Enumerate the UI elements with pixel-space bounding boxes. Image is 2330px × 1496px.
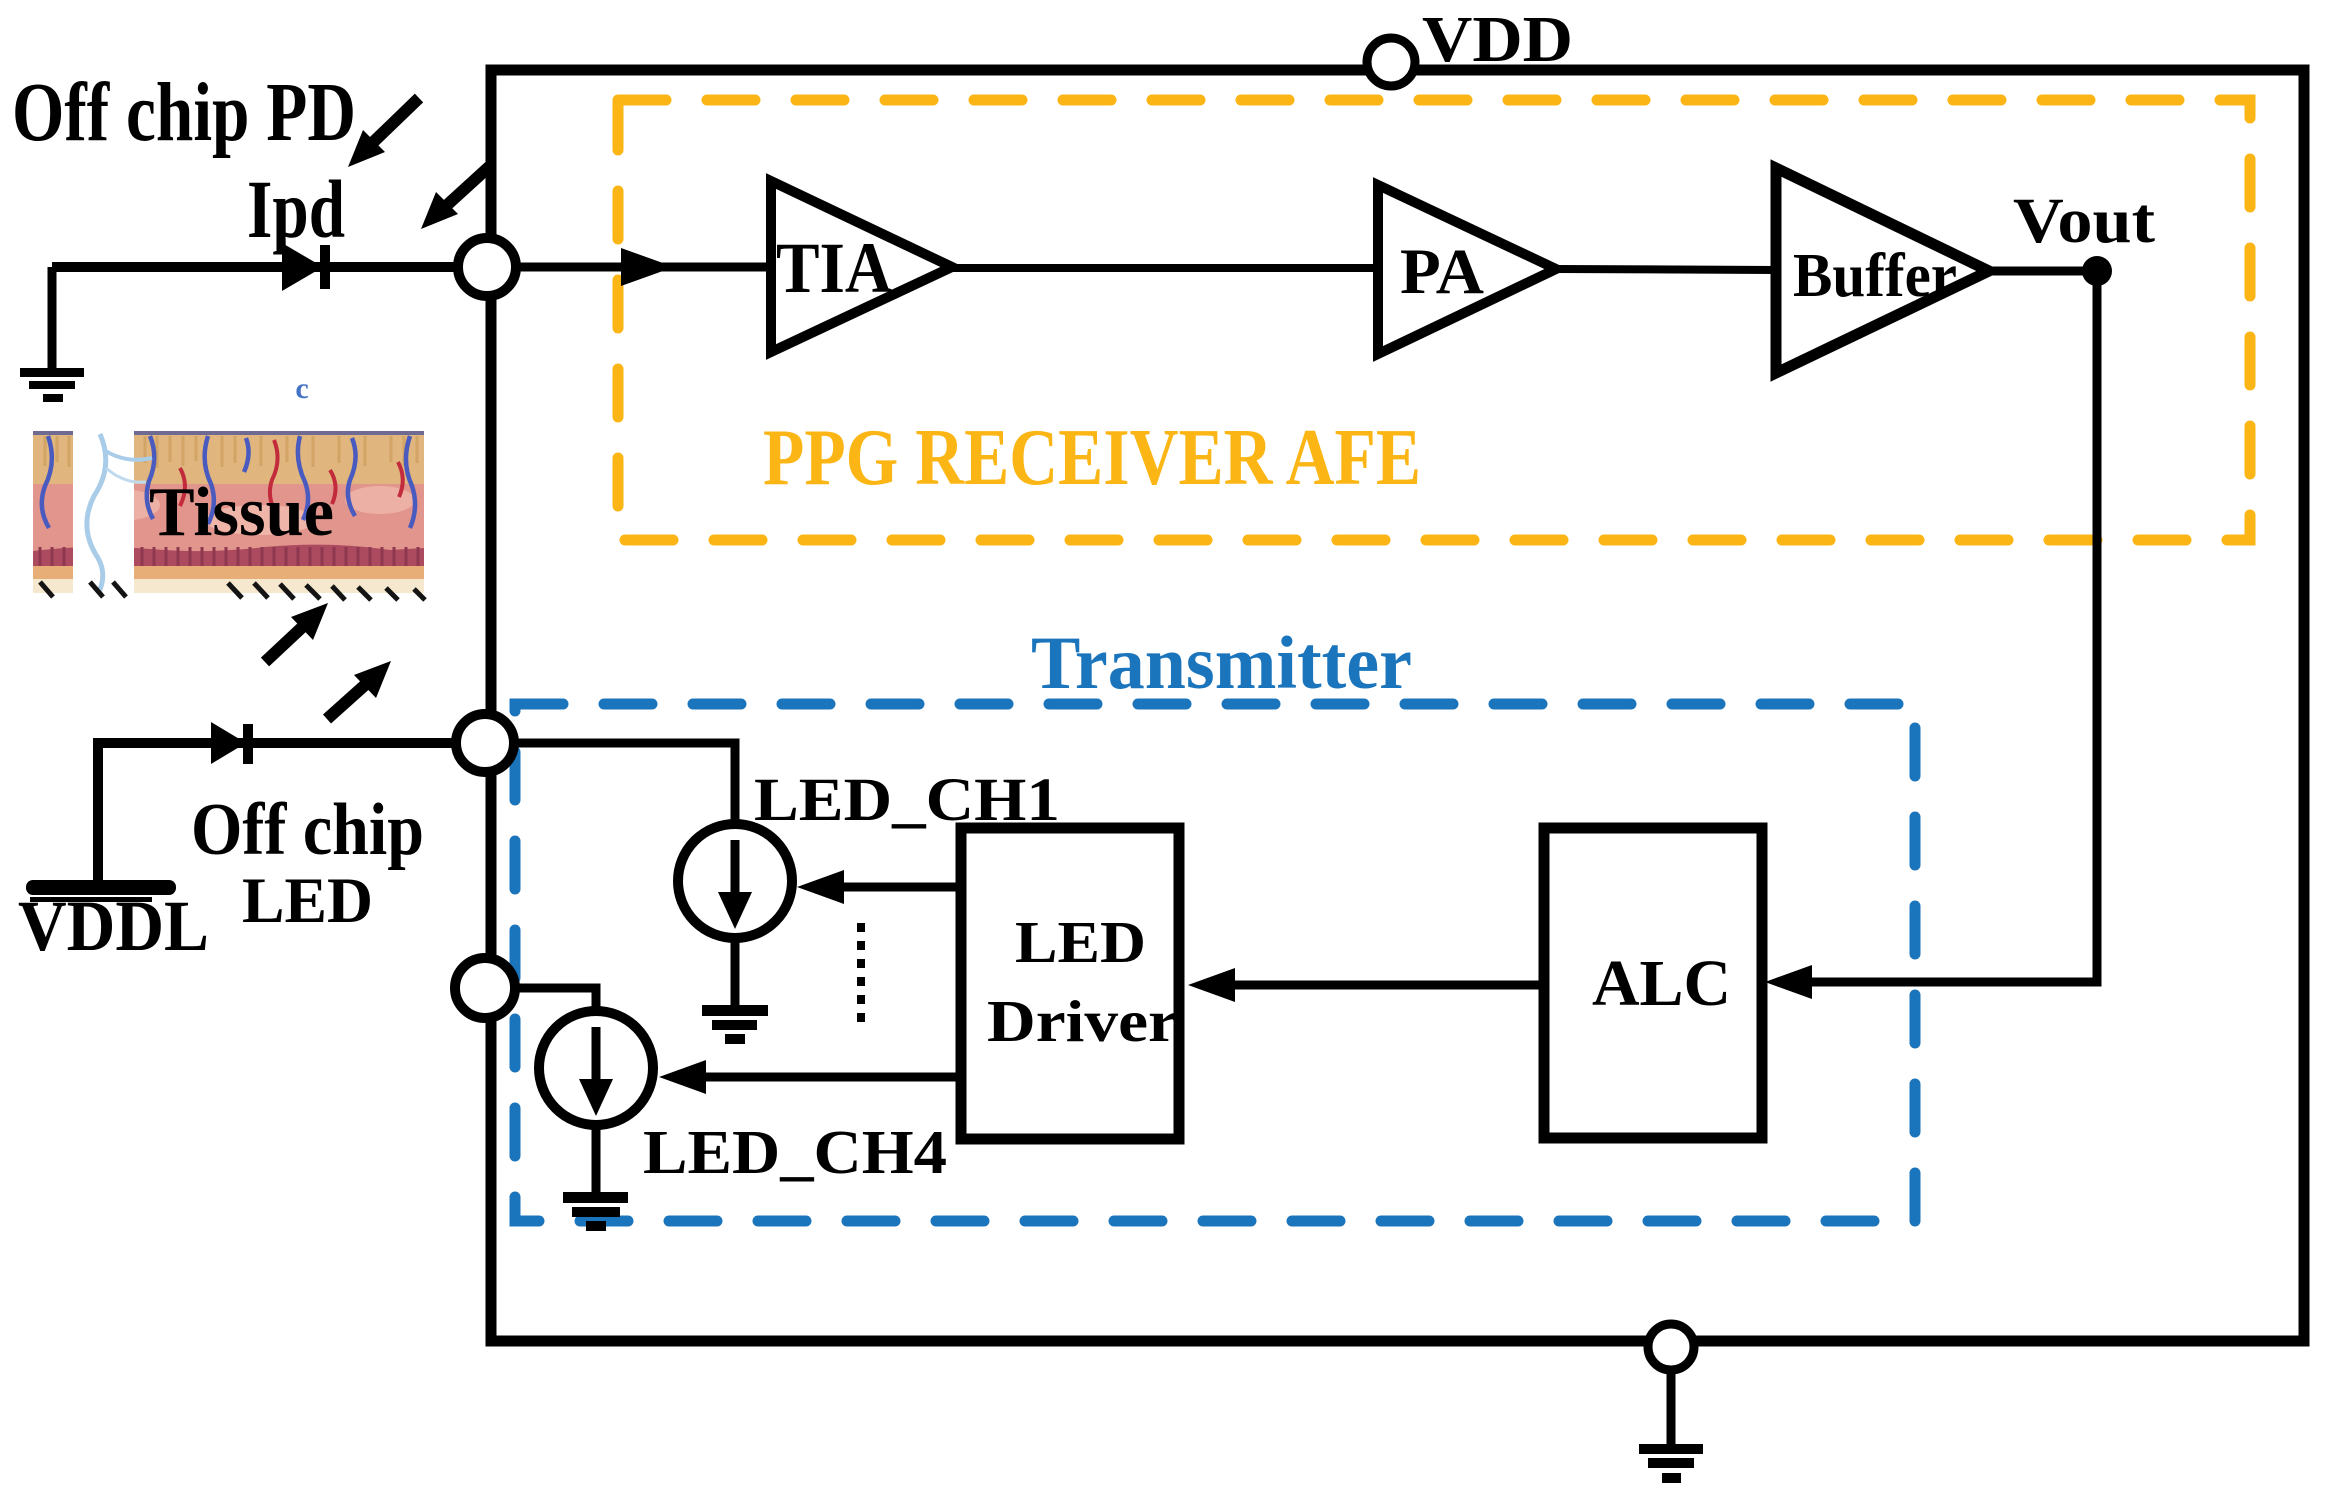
svg-text:PPG RECEIVER AFE: PPG RECEIVER AFE — [763, 414, 1421, 502]
svg-text:LED_CH1: LED_CH1 — [754, 767, 1060, 834]
svg-text:Off chip: Off chip — [191, 789, 424, 871]
arrowhead into LED_CH4 — [659, 1060, 706, 1094]
current source LED_CH1 — [678, 824, 792, 938]
wire: LED Driver to LED_CH1 source — [841, 883, 961, 892]
arrow (light to PD, lower) — [421, 165, 491, 229]
wire: PA to Buffer — [1556, 269, 1776, 270]
wire: top node to LED_CH1 — [487, 743, 735, 824]
wire: VDDL to LED diode — [98, 743, 485, 880]
wire: LED_CH4 to ground — [592, 1125, 601, 1196]
arrow (LED light to tissue, left) — [265, 603, 328, 662]
svg-text:c: c — [295, 372, 308, 405]
wire: node to TIA with arrowhead — [487, 263, 771, 272]
arrow (LED light to tissue, right) — [327, 661, 391, 719]
svg-text:LED: LED — [1015, 909, 1146, 975]
svg-text:Ipd: Ipd — [247, 163, 345, 255]
wire: Vout feedback down to ALC — [1810, 271, 2097, 982]
svg-text:Off chip PD: Off chip PD — [12, 66, 356, 159]
wire: ALC to LED Driver — [1233, 981, 1544, 990]
PPG RECEIVER AFE dashed box — [618, 100, 2250, 540]
VDD terminal circle — [1367, 38, 1415, 86]
ground (PD) — [20, 368, 84, 402]
chip outer boundary rectangle — [491, 70, 2304, 1341]
VDDL supply bar — [26, 880, 176, 902]
svg-text:Driver: Driver — [987, 988, 1178, 1054]
arrowhead into LED Driver — [1188, 968, 1235, 1002]
wire: terminal to ground — [1667, 1370, 1676, 1448]
ground (LED_CH1) — [702, 1005, 768, 1044]
arrowhead into LED_CH1 — [797, 870, 844, 904]
svg-text:LED_CH4: LED_CH4 — [643, 1119, 947, 1187]
wire: photodiode line into chip node — [52, 262, 487, 272]
ground (LED_CH4) — [563, 1192, 628, 1231]
wire: PD anode to ground corner — [48, 267, 57, 368]
current source LED_CH4 — [539, 1011, 653, 1125]
wire: LED_CH1 to ground — [731, 938, 740, 1006]
wire: LED Driver to LED_CH4 — [703, 1073, 961, 1082]
svg-text:TIA: TIA — [776, 228, 892, 308]
svg-text:VDDL: VDDL — [18, 886, 209, 966]
svg-text:Vout: Vout — [2013, 185, 2155, 257]
svg-text:Buffer: Buffer — [1793, 242, 1957, 310]
Transmitter dashed box — [515, 704, 1915, 1221]
svg-text:Tissue: Tissue — [149, 474, 334, 551]
svg-text:ALC: ALC — [1592, 947, 1731, 1020]
block LED Driver — [961, 828, 1179, 1139]
photodiode D1 — [282, 243, 330, 291]
node (LED top junction) — [456, 714, 514, 772]
amplifier TIA — [771, 181, 952, 352]
tissue image — [33, 431, 425, 600]
svg-text:LED: LED — [242, 865, 373, 937]
arrow (light to PD, upper) — [348, 98, 419, 167]
arrowhead into ALC — [1765, 965, 1812, 999]
block ALC — [1544, 828, 1762, 1138]
svg-text:VDD: VDD — [1422, 3, 1573, 76]
svg-text:PA: PA — [1400, 236, 1484, 308]
wire: Buffer to Vout node — [1989, 267, 2097, 276]
svg-text:Transmitter: Transmitter — [1031, 622, 1412, 705]
arrowhead on TIA input wire — [621, 248, 674, 286]
node Vout (solid dot) — [2082, 256, 2112, 286]
dotted separator (channels) — [857, 923, 865, 1028]
wire: lower node to LED_CH4 — [485, 988, 596, 1013]
amplifier Buffer — [1776, 168, 1989, 373]
LED diode D2 — [211, 722, 253, 764]
ground (bottom) — [1639, 1444, 1703, 1483]
wire: TIA to PA — [952, 264, 1378, 272]
bottom ground terminal circle — [1648, 1324, 1694, 1370]
node (PD junction) — [458, 238, 516, 296]
node (LED lower junction) — [455, 958, 515, 1018]
amplifier PA — [1378, 185, 1556, 354]
